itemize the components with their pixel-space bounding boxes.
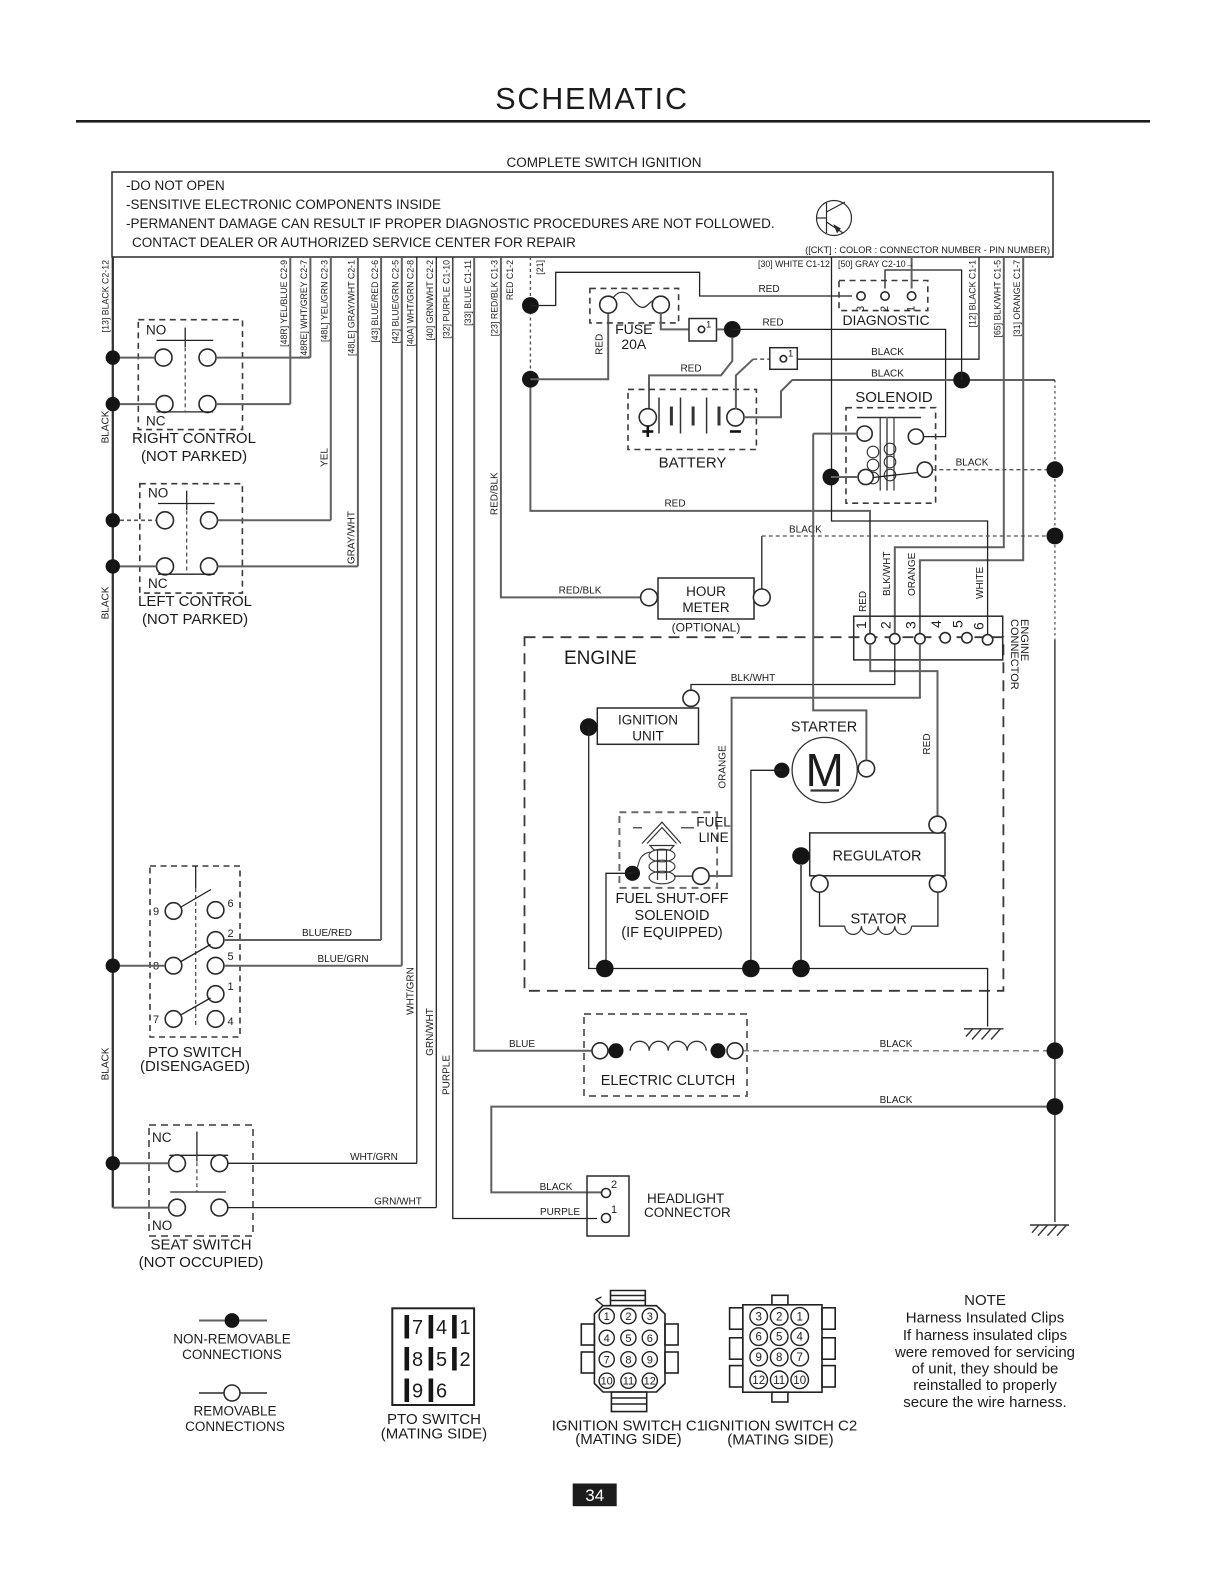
engine connector box	[854, 616, 1003, 660]
stator loop	[820, 892, 845, 926]
svg-text:CONNECTIONS: CONNECTIONS	[185, 1419, 285, 1434]
wire solenoid BR to right bus (dashed BLACK)	[932, 469, 1055, 471]
svg-text:4: 4	[796, 1332, 803, 1344]
svg-text:IGNITION: IGNITION	[618, 713, 678, 728]
svg-text:8: 8	[625, 1354, 631, 1366]
svg-text:REGULATOR: REGULATOR	[833, 849, 922, 865]
svg-text:NC: NC	[146, 414, 166, 429]
node dot (battery feed)	[724, 321, 741, 338]
pto contact 6	[207, 902, 224, 919]
svg-text:[32] PURPLE C1-10: [32] PURPLE C1-10	[442, 260, 452, 339]
svg-text:YEL: YEL	[320, 448, 331, 467]
svg-text:BLUE/GRN: BLUE/GRN	[317, 954, 368, 965]
right control NO contacts	[155, 349, 172, 366]
fuel solenoid terminals	[625, 866, 640, 881]
svg-text:M: M	[806, 744, 844, 796]
svg-text:9: 9	[412, 1381, 423, 1403]
wire [48R] YEL/BLUE C2-9	[289, 257, 291, 404]
seat NO bar	[170, 1191, 226, 1193]
svg-text:STARTER: STARTER	[791, 720, 857, 736]
svg-text:[43] BLUE/RED C2-6: [43] BLUE/RED C2-6	[370, 260, 380, 343]
svg-text:11: 11	[623, 1376, 634, 1388]
svg-text:BLACK: BLACK	[789, 525, 822, 536]
wire fuel dot to ground bus	[606, 873, 632, 968]
wire dot to left control NO (dashed)	[120, 519, 157, 521]
svg-text:1: 1	[788, 349, 793, 360]
svg-text:9: 9	[153, 906, 159, 918]
svg-text:6: 6	[970, 622, 986, 630]
svg-text:[13] BLACK C2-12: [13] BLACK C2-12	[101, 260, 111, 332]
pto contact 4	[207, 1011, 224, 1028]
svg-text:SEAT SWITCH: SEAT SWITCH	[150, 1237, 251, 1254]
svg-text:BLK/WHT: BLK/WHT	[731, 673, 775, 684]
svg-text:6: 6	[436, 1381, 447, 1403]
transistor icon	[817, 201, 852, 236]
solenoid box	[846, 408, 936, 504]
svg-text:[48RE] WHT/GREY C2-7: [48RE] WHT/GREY C2-7	[299, 260, 309, 358]
svg-text:20A: 20A	[621, 336, 647, 352]
fuse terminals	[600, 296, 617, 313]
svg-text:NC: NC	[152, 1130, 172, 1145]
pto blade 9	[181, 890, 211, 908]
wire dot to right control NC	[120, 403, 156, 405]
wire pin1 down to regulator top	[870, 644, 937, 817]
svg-text:PURPLE: PURPLE	[442, 1055, 453, 1095]
starter right terminal	[858, 760, 874, 776]
svg-text:2: 2	[611, 1179, 617, 1191]
left control NO bar	[158, 503, 215, 505]
wire dot to pto 8	[120, 965, 165, 967]
wire ignition dot down to engine ground bus	[589, 727, 988, 1026]
wire [23] RED/BLK C1-3 to hour meter	[501, 257, 641, 597]
svg-text:NO: NO	[146, 323, 166, 338]
svg-text:1: 1	[460, 1317, 471, 1339]
svg-text:BATTERY: BATTERY	[659, 455, 727, 472]
wire pto 5 to [42] BLUE/GRN	[224, 965, 402, 967]
svg-text:BLACK: BLACK	[871, 369, 904, 380]
svg-text:12: 12	[752, 1375, 765, 1387]
svg-text:8: 8	[776, 1352, 782, 1364]
svg-text:9: 9	[647, 1354, 653, 1366]
warning box	[112, 172, 1053, 257]
node dot at RED C1-2 top	[522, 297, 539, 314]
svg-text:PURPLE: PURPLE	[540, 1207, 580, 1218]
svg-text:2: 2	[878, 621, 894, 629]
svg-text:6: 6	[647, 1333, 653, 1345]
svg-text:(OPTIONAL): (OPTIONAL)	[672, 621, 741, 635]
solenoid coil	[867, 443, 896, 484]
seat switch box	[149, 1125, 253, 1236]
svg-text:[40] GRN/WHT C2-2: [40] GRN/WHT C2-2	[425, 260, 435, 341]
wire [40] GRN/WHT C2-2	[435, 257, 437, 1208]
svg-text:3: 3	[647, 1311, 653, 1323]
svg-text:CONNECTIONS: CONNECTIONS	[182, 1347, 282, 1362]
ground symbol right bus	[1030, 1225, 1069, 1236]
wire RED dot to solenoid top right	[732, 329, 945, 436]
svg-text:RED C1-2: RED C1-2	[505, 260, 515, 300]
svg-text:BLUE: BLUE	[509, 1039, 535, 1050]
svg-text:9: 9	[755, 1352, 761, 1364]
svg-text:CONNECTOR: CONNECTOR	[1008, 619, 1020, 690]
ignition switch C1 connector	[581, 1291, 678, 1412]
wire dot down to battery +	[649, 338, 732, 409]
connector pin box 1 (battery side)	[770, 348, 798, 370]
svg-text:WHT/GRN: WHT/GRN	[406, 967, 417, 1015]
svg-text:LINE: LINE	[699, 830, 729, 845]
svg-text:HOUR: HOUR	[686, 584, 726, 599]
svg-text:[12] BLACK C1-1: [12] BLACK C1-1	[968, 260, 978, 328]
wire battery - to right bus BLACK	[744, 380, 1055, 417]
svg-text:3: 3	[903, 621, 919, 629]
svg-text:REMOVABLE: REMOVABLE	[193, 1404, 276, 1419]
pto contact 8	[165, 957, 182, 974]
svg-text:-PERMANENT DAMAGE CAN RESULT I: -PERMANENT DAMAGE CAN RESULT IF PROPER D…	[126, 216, 775, 231]
fuse element	[613, 292, 656, 307]
non-removable connections symbol	[199, 1320, 267, 1322]
wire [32] PURPLE C1-10 to headlight pin 1	[453, 257, 597, 1219]
wire right control NC to [48R]	[216, 403, 290, 405]
svg-text:NOTE: NOTE	[964, 1292, 1006, 1309]
svg-text:12: 12	[644, 1376, 656, 1388]
right control NO bar	[157, 339, 214, 341]
wire hour meter right up and to right bus (dashed)	[761, 536, 763, 589]
left control NC contacts	[157, 558, 174, 575]
ground symbol engine	[964, 1029, 1004, 1040]
svg-text:(DISENGAGED): (DISENGAGED)	[140, 1058, 250, 1075]
svg-text:4: 4	[228, 1016, 234, 1028]
page number 34	[573, 1484, 617, 1507]
svg-text:RED: RED	[858, 591, 869, 612]
svg-text:METER: METER	[682, 600, 730, 615]
wire [48RE] WHT/GREY C2-7	[309, 257, 311, 358]
wire starter dot to ground bus	[751, 770, 782, 968]
svg-text:ORANGE: ORANGE	[907, 552, 918, 596]
svg-text:BLACK: BLACK	[956, 458, 989, 469]
svg-text:[40A] WHT/GRN C2-8: [40A] WHT/GRN C2-8	[406, 260, 416, 347]
right control box	[138, 320, 242, 430]
svg-text:1: 1	[853, 621, 869, 629]
svg-text:SOLENOID: SOLENOID	[855, 389, 933, 406]
svg-text:(MATING SIDE): (MATING SIDE)	[727, 1431, 833, 1448]
wire [48LE] GRAY/WHT C2-1	[357, 257, 359, 566]
node dot diag junction	[953, 372, 970, 389]
svg-text:ENGINE: ENGINE	[564, 648, 637, 669]
svg-text:1: 1	[611, 1204, 617, 1216]
svg-text:[50] GRAY C2-10→: [50] GRAY C2-10→	[838, 259, 914, 269]
fuel solenoid coil	[634, 849, 675, 884]
svg-text:RIGHT CONTROL: RIGHT CONTROL	[132, 430, 256, 447]
svg-text:1: 1	[796, 1311, 802, 1323]
svg-text:7: 7	[412, 1317, 423, 1339]
wire [43] BLUE/RED C2-6	[380, 257, 382, 940]
svg-text:WHT/GRN: WHT/GRN	[350, 1152, 398, 1163]
svg-text:8: 8	[412, 1349, 423, 1371]
svg-text:GRN/WHT: GRN/WHT	[425, 1008, 436, 1056]
svg-text:FUSE: FUSE	[615, 321, 652, 337]
svg-text:FUEL: FUEL	[696, 815, 731, 830]
wire headlight black to right bus	[491, 1107, 1055, 1193]
wire [33] BLUE C1-11 to electric clutch	[474, 257, 592, 1051]
svg-text:(NOT PARKED): (NOT PARKED)	[142, 611, 248, 628]
svg-text:COMPLETE SWITCH IGNITION: COMPLETE SWITCH IGNITION	[506, 155, 701, 170]
svg-text:BLACK: BLACK	[540, 1182, 573, 1193]
svg-text:WHITE: WHITE	[975, 566, 986, 599]
svg-text:3: 3	[755, 1311, 761, 1323]
svg-text:RED: RED	[680, 364, 701, 375]
svg-text:34: 34	[585, 1486, 604, 1505]
wire regulator dot to ground bus	[800, 864, 802, 969]
solenoid BL dot	[823, 469, 840, 486]
svg-text:(MATING SIDE): (MATING SIDE)	[381, 1426, 487, 1443]
svg-text:BLACK: BLACK	[101, 1047, 112, 1080]
svg-text:5: 5	[228, 951, 234, 963]
svg-text:5: 5	[776, 1332, 782, 1344]
wire [30] WHITE C1-12 to solenoid dot and pin 6	[832, 257, 988, 635]
wire seat NO to [40] GRN/WHT	[228, 1207, 436, 1209]
svg-text:2: 2	[228, 928, 234, 940]
seat NC contacts	[169, 1155, 186, 1172]
pto contact 5	[207, 957, 224, 974]
battery box	[628, 389, 756, 449]
svg-text:[65] BLK/WHT C1-5: [65] BLK/WHT C1-5	[993, 260, 1003, 338]
svg-text:[21]: [21]	[535, 260, 545, 275]
svg-text:-SENSITIVE ELECTRONIC COMPONEN: -SENSITIVE ELECTRONIC COMPONENTS INSIDE	[126, 197, 441, 212]
svg-text:7: 7	[796, 1352, 802, 1364]
svg-text:NO: NO	[152, 1218, 172, 1233]
svg-text:SCHEMATIC: SCHEMATIC	[495, 82, 689, 116]
PTO switch mating side	[392, 1308, 474, 1405]
node dot 2 on RED C1-2	[522, 371, 539, 388]
svg-text:[30] WHITE C1-12: [30] WHITE C1-12	[758, 259, 830, 269]
svg-text:Harness Insulated Clips: Harness Insulated Clips	[906, 1310, 1064, 1327]
svg-text:were removed for servicing: were removed for servicing	[894, 1344, 1075, 1361]
svg-text:BLACK: BLACK	[101, 586, 112, 619]
wire dot to right control NO	[120, 357, 155, 359]
seat NO contacts	[169, 1199, 186, 1216]
svg-text:SOLENOID: SOLENOID	[635, 908, 710, 924]
svg-text:7: 7	[604, 1354, 610, 1366]
svg-text:1: 1	[604, 1311, 610, 1323]
svg-text:GRAY/WHT: GRAY/WHT	[347, 511, 358, 564]
svg-text:[31] ORANGE C1-7: [31] ORANGE C1-7	[1012, 260, 1022, 337]
wire battery - up to connector box 1 (dashed tail)	[736, 359, 753, 409]
wire dot2 to fuse left terminal	[530, 314, 608, 380]
svg-text:BLK/WHT: BLK/WHT	[882, 552, 893, 596]
svg-text:1: 1	[228, 981, 234, 993]
svg-text:[23] RED/BLK C1-3: [23] RED/BLK C1-3	[490, 260, 500, 336]
svg-text:2: 2	[460, 1349, 471, 1371]
right bus vertical	[1054, 380, 1056, 640]
svg-text:2: 2	[625, 1311, 631, 1323]
right control NC bar	[157, 411, 214, 413]
wire left control NO to [48L]	[218, 519, 331, 521]
svg-text:(NOT PARKED): (NOT PARKED)	[141, 448, 247, 465]
wire [13] BLACK C2-12 main left vertical	[112, 257, 114, 1208]
svg-text:4: 4	[604, 1333, 610, 1345]
engine connector pins	[865, 634, 875, 644]
svg-text:NO: NO	[148, 486, 168, 501]
svg-text:If harness insulated clips: If harness insulated clips	[903, 1327, 1067, 1344]
wire starter cable to solenoid TL	[813, 434, 866, 761]
svg-text:10: 10	[793, 1375, 806, 1387]
svg-text:ORANGE: ORANGE	[718, 745, 729, 789]
regulator bottom terminals	[811, 875, 828, 892]
svg-text:(MATING SIDE): (MATING SIDE)	[575, 1431, 681, 1448]
wire [42] BLUE/GRN C2-5	[401, 257, 403, 966]
svg-text:10: 10	[601, 1376, 613, 1388]
svg-text:(IF EQUIPPED): (IF EQUIPPED)	[621, 925, 723, 941]
svg-text:RED: RED	[664, 499, 685, 510]
connector pin box 1 (fuse side)	[689, 319, 717, 342]
wire dot to diagnostic pin 3	[530, 272, 852, 305]
svg-text:RED: RED	[595, 334, 606, 355]
seat NC bar	[169, 1154, 228, 1156]
svg-text:RED/BLK: RED/BLK	[490, 472, 501, 515]
svg-text:5: 5	[436, 1349, 447, 1371]
svg-text:[42] BLUE/GRN C2-5: [42] BLUE/GRN C2-5	[391, 260, 401, 344]
wire clutch to right bus	[743, 1050, 1055, 1052]
ignition switch C2 connector	[730, 1295, 836, 1402]
svg-text:BLACK: BLACK	[880, 1039, 913, 1050]
svg-text:BLACK: BLACK	[101, 410, 112, 443]
title rule	[76, 120, 1150, 123]
wire dot to left control NC	[120, 565, 157, 567]
engine connector label	[1008, 619, 1030, 690]
svg-text:ELECTRIC CLUTCH: ELECTRIC CLUTCH	[601, 1073, 736, 1089]
svg-text:HEADLIGHT: HEADLIGHT	[647, 1191, 724, 1206]
svg-text:[48L] YEL/GRN C2-3: [48L] YEL/GRN C2-3	[320, 260, 330, 342]
wire dot to seat NC	[120, 1162, 169, 1164]
wire RED C1-2 / [21] vertical	[529, 257, 531, 306]
svg-text:4: 4	[436, 1317, 447, 1339]
svg-text:RED: RED	[758, 284, 779, 295]
svg-text:BLACK: BLACK	[880, 1095, 913, 1106]
pto switch box	[150, 866, 240, 1037]
wire fuse right to connector box 1	[661, 313, 689, 329]
solenoid blade	[873, 473, 918, 478]
wire dot to solenoid BL	[831, 476, 858, 478]
svg-text:reinstalled to properly: reinstalled to properly	[913, 1377, 1057, 1394]
svg-text:of unit, they should be: of unit, they should be	[912, 1361, 1059, 1378]
svg-text:(NOT OCCUPIED): (NOT OCCUPIED)	[139, 1254, 264, 1271]
battery + terminal	[639, 409, 656, 426]
svg-text:BLUE/RED: BLUE/RED	[302, 928, 352, 939]
svg-text:GRN/WHT: GRN/WHT	[374, 1197, 422, 1208]
svg-text:5: 5	[950, 620, 966, 628]
wire pin3 down to fuel solenoid ORANGE	[709, 644, 920, 876]
pto contact 9	[165, 903, 182, 920]
svg-text:([CKT] : COLOR : CONNECTOR NUM: ([CKT] : COLOR : CONNECTOR NUMBER - PIN …	[805, 245, 1050, 255]
wire main line corner to seat NO	[113, 1207, 169, 1209]
svg-text:NC: NC	[148, 576, 168, 591]
wire seat NC to [40A] WHT/GRN	[228, 1162, 417, 1164]
svg-text:LEFT CONTROL: LEFT CONTROL	[138, 593, 252, 610]
left control NC bar	[158, 573, 215, 575]
engine ground bus dots	[596, 960, 614, 978]
wire right control NO to [48RE]	[216, 357, 310, 359]
svg-text:secure the wire harness.: secure the wire harness.	[903, 1394, 1066, 1411]
svg-text:RED: RED	[762, 318, 783, 329]
wire left control NC to [48LE]	[218, 565, 358, 567]
wire BLACK box to [12] BLACK C1-1	[797, 257, 979, 359]
node junction dots on left main wire	[106, 350, 120, 364]
wire [48L] YEL/GRN C2-3	[330, 257, 332, 520]
wire diagnostic pin2 up over to junction	[885, 270, 962, 380]
svg-text:CONTACT DEALER OR AUTHORIZED S: CONTACT DEALER OR AUTHORIZED SERVICE CEN…	[132, 235, 576, 250]
svg-text:5: 5	[625, 1333, 631, 1345]
svg-text:4: 4	[928, 620, 944, 628]
removable connections symbol	[199, 1392, 267, 1394]
svg-text:BLACK: BLACK	[871, 347, 904, 358]
NOTE block	[894, 1292, 1075, 1411]
svg-text:-DO NOT OPEN: -DO NOT OPEN	[126, 178, 225, 193]
battery plates	[659, 398, 719, 434]
svg-text:7: 7	[153, 1014, 159, 1026]
svg-text:FUEL SHUT-OFF: FUEL SHUT-OFF	[615, 891, 728, 907]
svg-text:6: 6	[755, 1332, 761, 1344]
svg-text:RED/BLK: RED/BLK	[559, 586, 602, 597]
stator coil scallops	[845, 926, 912, 934]
svg-text:1: 1	[706, 320, 711, 331]
pto contact 1	[207, 986, 224, 1003]
wire box to node dot	[717, 328, 733, 330]
pto blade 8-2	[181, 945, 211, 962]
svg-text:DIAGNOSTIC: DIAGNOSTIC	[842, 312, 929, 328]
wire starter cable corner to solenoid TL	[813, 433, 857, 435]
wire pto 2 to [43] BLUE/RED	[224, 939, 381, 941]
wire [65] BLK/WHT C1-5 to pin 2	[895, 257, 1004, 634]
svg-text:6: 6	[228, 898, 234, 910]
svg-text:STATOR: STATOR	[850, 912, 906, 928]
svg-text:11: 11	[773, 1375, 785, 1387]
left control box	[140, 484, 243, 593]
fuel line with nozzle chevrons	[633, 822, 694, 880]
svg-text:[48LE] GRAY/WHT C2-1: [48LE] GRAY/WHT C2-1	[347, 260, 357, 356]
svg-text:RED: RED	[922, 733, 933, 754]
svg-text:UNIT: UNIT	[632, 729, 664, 744]
left control NO contacts	[157, 512, 174, 529]
battery - terminal	[727, 409, 744, 426]
wire [31] ORANGE C1-7 to pin 3	[920, 257, 1023, 634]
wire pin2 down to ignition unit BLK/WHT	[691, 644, 895, 690]
right control NC contacts	[156, 396, 173, 413]
wire diagnostic pin1 up	[911, 257, 913, 289]
svg-text:NON-REMOVABLE: NON-REMOVABLE	[173, 1332, 291, 1347]
pto contact 2	[207, 932, 224, 949]
diagnostic connector box	[839, 281, 928, 311]
solenoid core	[857, 418, 921, 491]
pto contact 7	[165, 1011, 182, 1028]
pto blade 7-1	[181, 998, 211, 1015]
svg-text:[33] BLUE C1-11: [33] BLUE C1-11	[463, 260, 473, 326]
fuse box	[590, 288, 679, 323]
solenoid terminals	[857, 426, 872, 441]
svg-text:2: 2	[776, 1311, 782, 1323]
wire [40A] WHT/GRN C2-8	[416, 257, 418, 1163]
svg-text:CONNECTOR: CONNECTOR	[644, 1205, 731, 1220]
svg-text:[48R] YEL/BLUE C2-9: [48R] YEL/BLUE C2-9	[279, 260, 289, 347]
